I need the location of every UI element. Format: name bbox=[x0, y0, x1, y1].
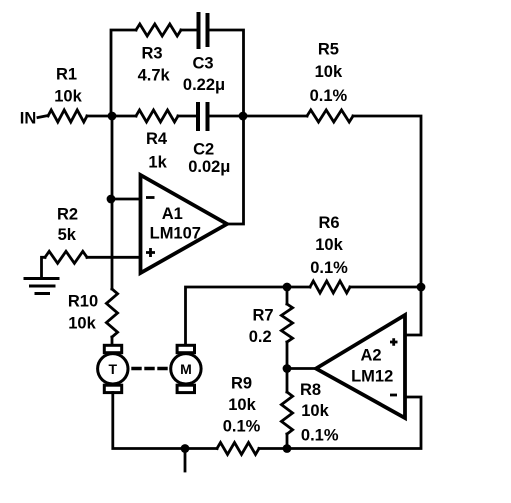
wire R2 to ground bbox=[42, 257, 46, 277]
dashed coupling link bbox=[133, 367, 168, 370]
node R8/R9 junction bbox=[283, 444, 292, 453]
resistor R6 bbox=[287, 286, 310, 289]
svg-text:C3: C3 bbox=[192, 55, 213, 73]
wire R2 to A1 plus input bbox=[87, 256, 141, 259]
op-amp A2 bbox=[316, 315, 405, 418]
resistor R10 bbox=[106, 289, 117, 337]
svg-text:R6: R6 bbox=[318, 214, 339, 232]
wire main node to R4 bbox=[112, 115, 136, 118]
wire node B down to A1 output bbox=[227, 116, 244, 224]
wire T motor bottom to ground rail bbox=[113, 393, 185, 449]
wire C3 to right vertical bbox=[210, 30, 244, 116]
A2 minus marker bbox=[390, 394, 397, 397]
resistor R1 bbox=[48, 110, 87, 122]
svg-text:10k: 10k bbox=[315, 63, 343, 81]
svg-text:R10: R10 bbox=[68, 293, 98, 311]
wire bottom feedback to A2 minus bbox=[287, 397, 421, 449]
wire A2 output to node bbox=[287, 367, 316, 370]
svg-text:4.7k: 4.7k bbox=[138, 67, 171, 85]
svg-text:10k: 10k bbox=[301, 402, 329, 420]
svg-text:A1: A1 bbox=[162, 205, 183, 223]
A2 plus marker bbox=[390, 338, 398, 346]
svg-text:A2: A2 bbox=[360, 346, 381, 364]
node IN/R4/R3 junction bbox=[108, 112, 117, 121]
resistor R3 bbox=[136, 24, 181, 36]
capacitor C3 bbox=[199, 14, 208, 47]
wire R5 to right rail bbox=[353, 116, 421, 287]
svg-text:0.1%: 0.1% bbox=[310, 259, 348, 277]
wire IN lead bbox=[38, 116, 48, 118]
node A1 output junction bbox=[239, 112, 248, 121]
wire C2 to node B bbox=[210, 115, 244, 118]
capacitor C2 bbox=[198, 104, 208, 129]
svg-text:0.2: 0.2 bbox=[249, 328, 272, 346]
resistor R8 bbox=[286, 369, 289, 393]
wire R4 to C2 bbox=[178, 115, 196, 118]
A1 plus marker bbox=[146, 248, 155, 257]
svg-text:R2: R2 bbox=[57, 206, 78, 224]
svg-text:C2: C2 bbox=[193, 141, 214, 159]
resistor R9 bbox=[185, 447, 217, 450]
svg-text:LM12: LM12 bbox=[351, 367, 393, 385]
svg-text:R3: R3 bbox=[141, 45, 162, 63]
node A2 output junction bbox=[283, 364, 292, 373]
resistor R5 bbox=[307, 110, 353, 122]
wire M motor to R6 line bbox=[186, 287, 288, 345]
motor T bbox=[98, 345, 128, 392]
wire inverting input A1 bbox=[111, 198, 141, 201]
wire R3 to C3 bbox=[181, 29, 196, 32]
svg-text:R1: R1 bbox=[56, 65, 77, 83]
svg-text:0.22μ: 0.22μ bbox=[183, 76, 225, 94]
svg-text:LM107: LM107 bbox=[150, 224, 201, 242]
resistor R2 bbox=[45, 251, 87, 263]
node motor ground junction bbox=[181, 444, 190, 453]
svg-text:M: M bbox=[180, 361, 192, 377]
resistor R7 bbox=[286, 287, 289, 304]
op-amp A1 bbox=[141, 175, 228, 273]
svg-text:0.1%: 0.1% bbox=[301, 426, 339, 444]
svg-text:1k: 1k bbox=[148, 154, 167, 172]
svg-text:R9: R9 bbox=[231, 375, 252, 393]
wire bottom stub bbox=[184, 449, 187, 472]
ground bbox=[25, 279, 58, 294]
resistor R4 bbox=[136, 110, 178, 122]
svg-text:10k: 10k bbox=[228, 396, 256, 414]
svg-text:R8: R8 bbox=[300, 381, 321, 399]
wire right rail to A2 plus input bbox=[405, 287, 421, 335]
node R6/R7 junction bbox=[283, 283, 292, 292]
node A1 inverting junction bbox=[107, 195, 116, 204]
svg-text:10k: 10k bbox=[68, 315, 96, 333]
wire left rail down bbox=[111, 116, 114, 289]
wire node B to R5 bbox=[243, 115, 307, 118]
svg-text:10k: 10k bbox=[315, 236, 343, 254]
motor M bbox=[171, 345, 201, 392]
svg-text:0.02μ: 0.02μ bbox=[188, 158, 230, 176]
wire top loop left vertical bbox=[111, 30, 136, 116]
wire R9 to R8 node bbox=[259, 447, 287, 450]
svg-text:R4: R4 bbox=[146, 130, 168, 148]
svg-text:T: T bbox=[109, 361, 118, 377]
wire R1 to node bbox=[87, 115, 112, 118]
wire R10 to T motor bbox=[111, 337, 114, 345]
node right rail junction bbox=[417, 283, 426, 292]
A1 minus marker bbox=[146, 196, 155, 199]
svg-text:10k: 10k bbox=[54, 88, 82, 106]
svg-text:R7: R7 bbox=[252, 306, 273, 324]
svg-text:0.1%: 0.1% bbox=[223, 418, 261, 436]
svg-text:0.1%: 0.1% bbox=[310, 87, 348, 105]
svg-text:R5: R5 bbox=[318, 41, 339, 59]
svg-text:5k: 5k bbox=[58, 226, 77, 244]
svg-text:IN: IN bbox=[20, 109, 37, 127]
